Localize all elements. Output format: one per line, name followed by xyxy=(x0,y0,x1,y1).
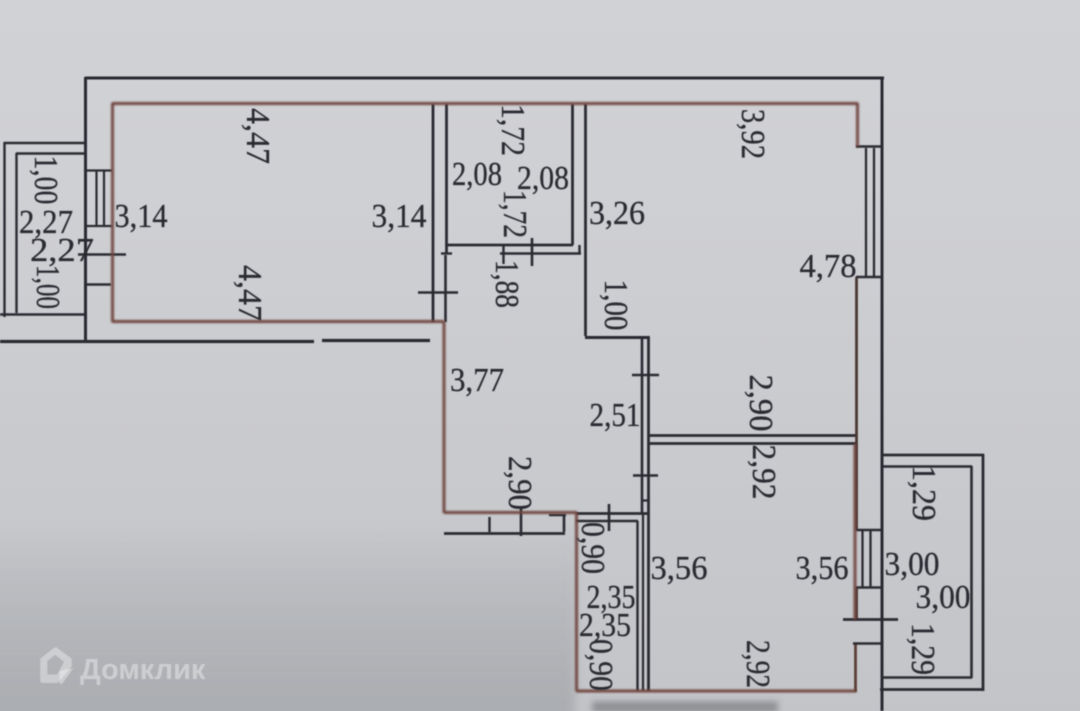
divider wall top line xyxy=(648,434,857,437)
closet right wall line b xyxy=(642,513,644,691)
svg-text:3,92: 3,92 xyxy=(734,109,771,159)
svg-text:1,00: 1,00 xyxy=(597,280,634,331)
svg-text:3,00: 3,00 xyxy=(885,546,940,583)
svg-text:2,90: 2,90 xyxy=(742,375,779,432)
window right 1: glass pane b xyxy=(873,148,875,276)
right balcony outer top xyxy=(883,454,984,457)
svg-text:1,72: 1,72 xyxy=(496,190,533,238)
red perimeter: corridor bottom xyxy=(444,511,577,514)
tick on room1/hall wall xyxy=(418,291,458,294)
left balcony outer top xyxy=(4,142,85,144)
window right 1: bottom sill xyxy=(856,276,883,278)
closet top wall upper line xyxy=(576,512,648,515)
svg-text:2,27: 2,27 xyxy=(30,232,94,269)
svg-text:3,14: 3,14 xyxy=(372,198,427,235)
faint cut-off line bottom xyxy=(592,702,778,711)
bathroom right wall xyxy=(571,104,574,245)
svg-text:Домклик: Домклик xyxy=(80,654,206,686)
red perimeter: bottom xyxy=(576,690,856,693)
red perimeter: bottom room right xyxy=(854,444,857,620)
right balcony inner right xyxy=(970,466,973,678)
wall: outer left xyxy=(84,77,87,342)
svg-text:2,92: 2,92 xyxy=(739,640,776,688)
balcony door left: top tick xyxy=(78,253,126,256)
bathroom bottom wall lower line stub left xyxy=(441,252,452,254)
tick on long wall lower xyxy=(633,474,658,477)
inner right wall segment above window2 xyxy=(855,277,858,530)
long wall x648 xyxy=(647,336,650,691)
balcony door right: tick xyxy=(843,618,898,621)
wall room1/hall double: left line xyxy=(432,104,435,322)
red perimeter: top xyxy=(112,102,858,105)
left balcony inner top xyxy=(16,152,85,154)
red perimeter: room1 bottom xyxy=(112,320,444,323)
closet top wall lower line xyxy=(576,520,638,522)
svg-text:1,29: 1,29 xyxy=(904,623,941,675)
long wall x642 upper xyxy=(641,336,644,513)
svg-text:3,26: 3,26 xyxy=(589,195,645,232)
right balcony inner bottom xyxy=(883,676,972,679)
window room1 left: glass pane a xyxy=(95,170,97,226)
left balcony bottom xyxy=(0,313,85,316)
corridor bottom door tick b xyxy=(520,507,523,536)
red perimeter: room1 left xyxy=(111,103,114,322)
corridor bottom door line xyxy=(444,532,565,535)
svg-text:3,56: 3,56 xyxy=(651,550,708,587)
svg-text:4,78: 4,78 xyxy=(800,248,857,285)
svg-text:2,92: 2,92 xyxy=(745,445,782,500)
long wall connector xyxy=(641,499,649,501)
red perimeter: corridor left xyxy=(443,321,446,513)
left balcony inner left xyxy=(15,153,17,313)
inner right wall segment below balcony door xyxy=(854,643,857,692)
svg-text:2,90: 2,90 xyxy=(501,456,538,510)
bathroom bottom wall lower line xyxy=(500,252,581,255)
divider wall bottom line xyxy=(648,442,857,445)
window right 2: bottom sill xyxy=(856,586,883,588)
red perimeter: right top above window xyxy=(856,103,859,147)
window right 1: top sill xyxy=(856,145,883,147)
right balcony inner top xyxy=(883,465,972,468)
watermark corner piece xyxy=(60,668,74,684)
svg-text:1,29: 1,29 xyxy=(905,465,942,521)
svg-text:2,08: 2,08 xyxy=(452,156,502,193)
big room left wall xyxy=(584,104,587,336)
left balcony outer left xyxy=(3,142,5,317)
right balcony outer right xyxy=(982,454,985,691)
svg-text:3,56: 3,56 xyxy=(796,550,849,587)
window right 1: glass pane a xyxy=(865,148,867,276)
svg-text:1,72: 1,72 xyxy=(494,104,531,156)
svg-text:4,47: 4,47 xyxy=(231,265,268,321)
door bracket left of closet: vertical xyxy=(563,515,566,532)
svg-text:1,88: 1,88 xyxy=(488,260,525,308)
watermark house icon xyxy=(40,647,72,683)
svg-text:3,14: 3,14 xyxy=(115,198,168,235)
window right 2: glass pane a xyxy=(861,531,863,587)
svg-text:0,90: 0,90 xyxy=(574,522,611,574)
wall: outer top xyxy=(85,77,884,80)
bathroom bottom: right stub xyxy=(578,245,580,254)
window right 2: glass pane b xyxy=(869,531,871,587)
svg-text:3,77: 3,77 xyxy=(450,362,504,399)
svg-text:1,00: 1,00 xyxy=(27,156,64,205)
watermark Domklik xyxy=(0,638,260,698)
wall: bottom long left segment xyxy=(0,340,314,343)
tick on closet top xyxy=(608,504,611,531)
window room1 left: glass pane b xyxy=(103,170,105,226)
wall room1/hall double: right line upper xyxy=(445,104,448,253)
right balcony outer bottom xyxy=(880,688,984,691)
step wall (1,00 notch) xyxy=(585,336,649,339)
svg-text:1,00: 1,00 xyxy=(29,265,66,309)
window right 2: top sill xyxy=(856,529,883,531)
tick on bathroom bottom a xyxy=(502,246,504,264)
svg-text:3,00: 3,00 xyxy=(916,579,971,616)
window room1 left: top sill xyxy=(86,169,112,171)
window room1 left: bottom sill xyxy=(86,225,112,227)
door bracket left of closet: horizontal xyxy=(549,514,566,517)
bathroom bottom wall upper line xyxy=(446,244,573,247)
wall: bottom long right segment xyxy=(322,339,430,342)
svg-text:2,51: 2,51 xyxy=(590,397,641,434)
svg-text:4,47: 4,47 xyxy=(239,108,276,164)
corridor bottom door tick a xyxy=(488,517,490,532)
balcony door left: bottom edge xyxy=(86,283,111,285)
balcony door right: bottom edge xyxy=(853,642,881,645)
wall room1/hall double: right line lower xyxy=(444,255,447,322)
shading lower-left (photo darkening) xyxy=(0,524,575,711)
tick on long wall upper xyxy=(632,374,659,377)
tick on bathroom bottom b xyxy=(531,238,534,266)
svg-text:0,90: 0,90 xyxy=(582,639,619,691)
red perimeter: closet left xyxy=(575,513,578,691)
closet right wall line a xyxy=(636,521,638,691)
wall: outer right (full height) xyxy=(881,77,884,711)
inner right wall segment below window2 xyxy=(855,587,858,620)
